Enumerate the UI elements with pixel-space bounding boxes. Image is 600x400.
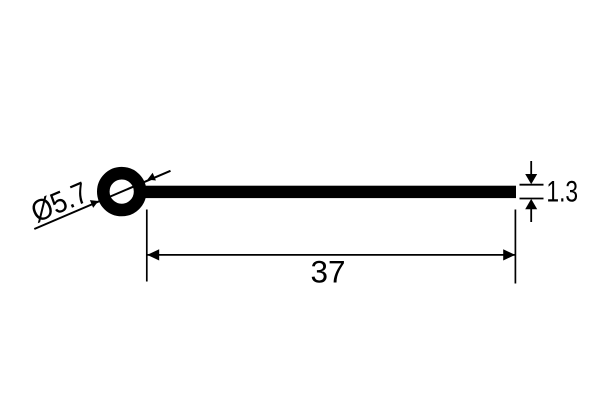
svg-text:37: 37 bbox=[310, 254, 345, 290]
svg-text:1.3: 1.3 bbox=[546, 175, 578, 209]
